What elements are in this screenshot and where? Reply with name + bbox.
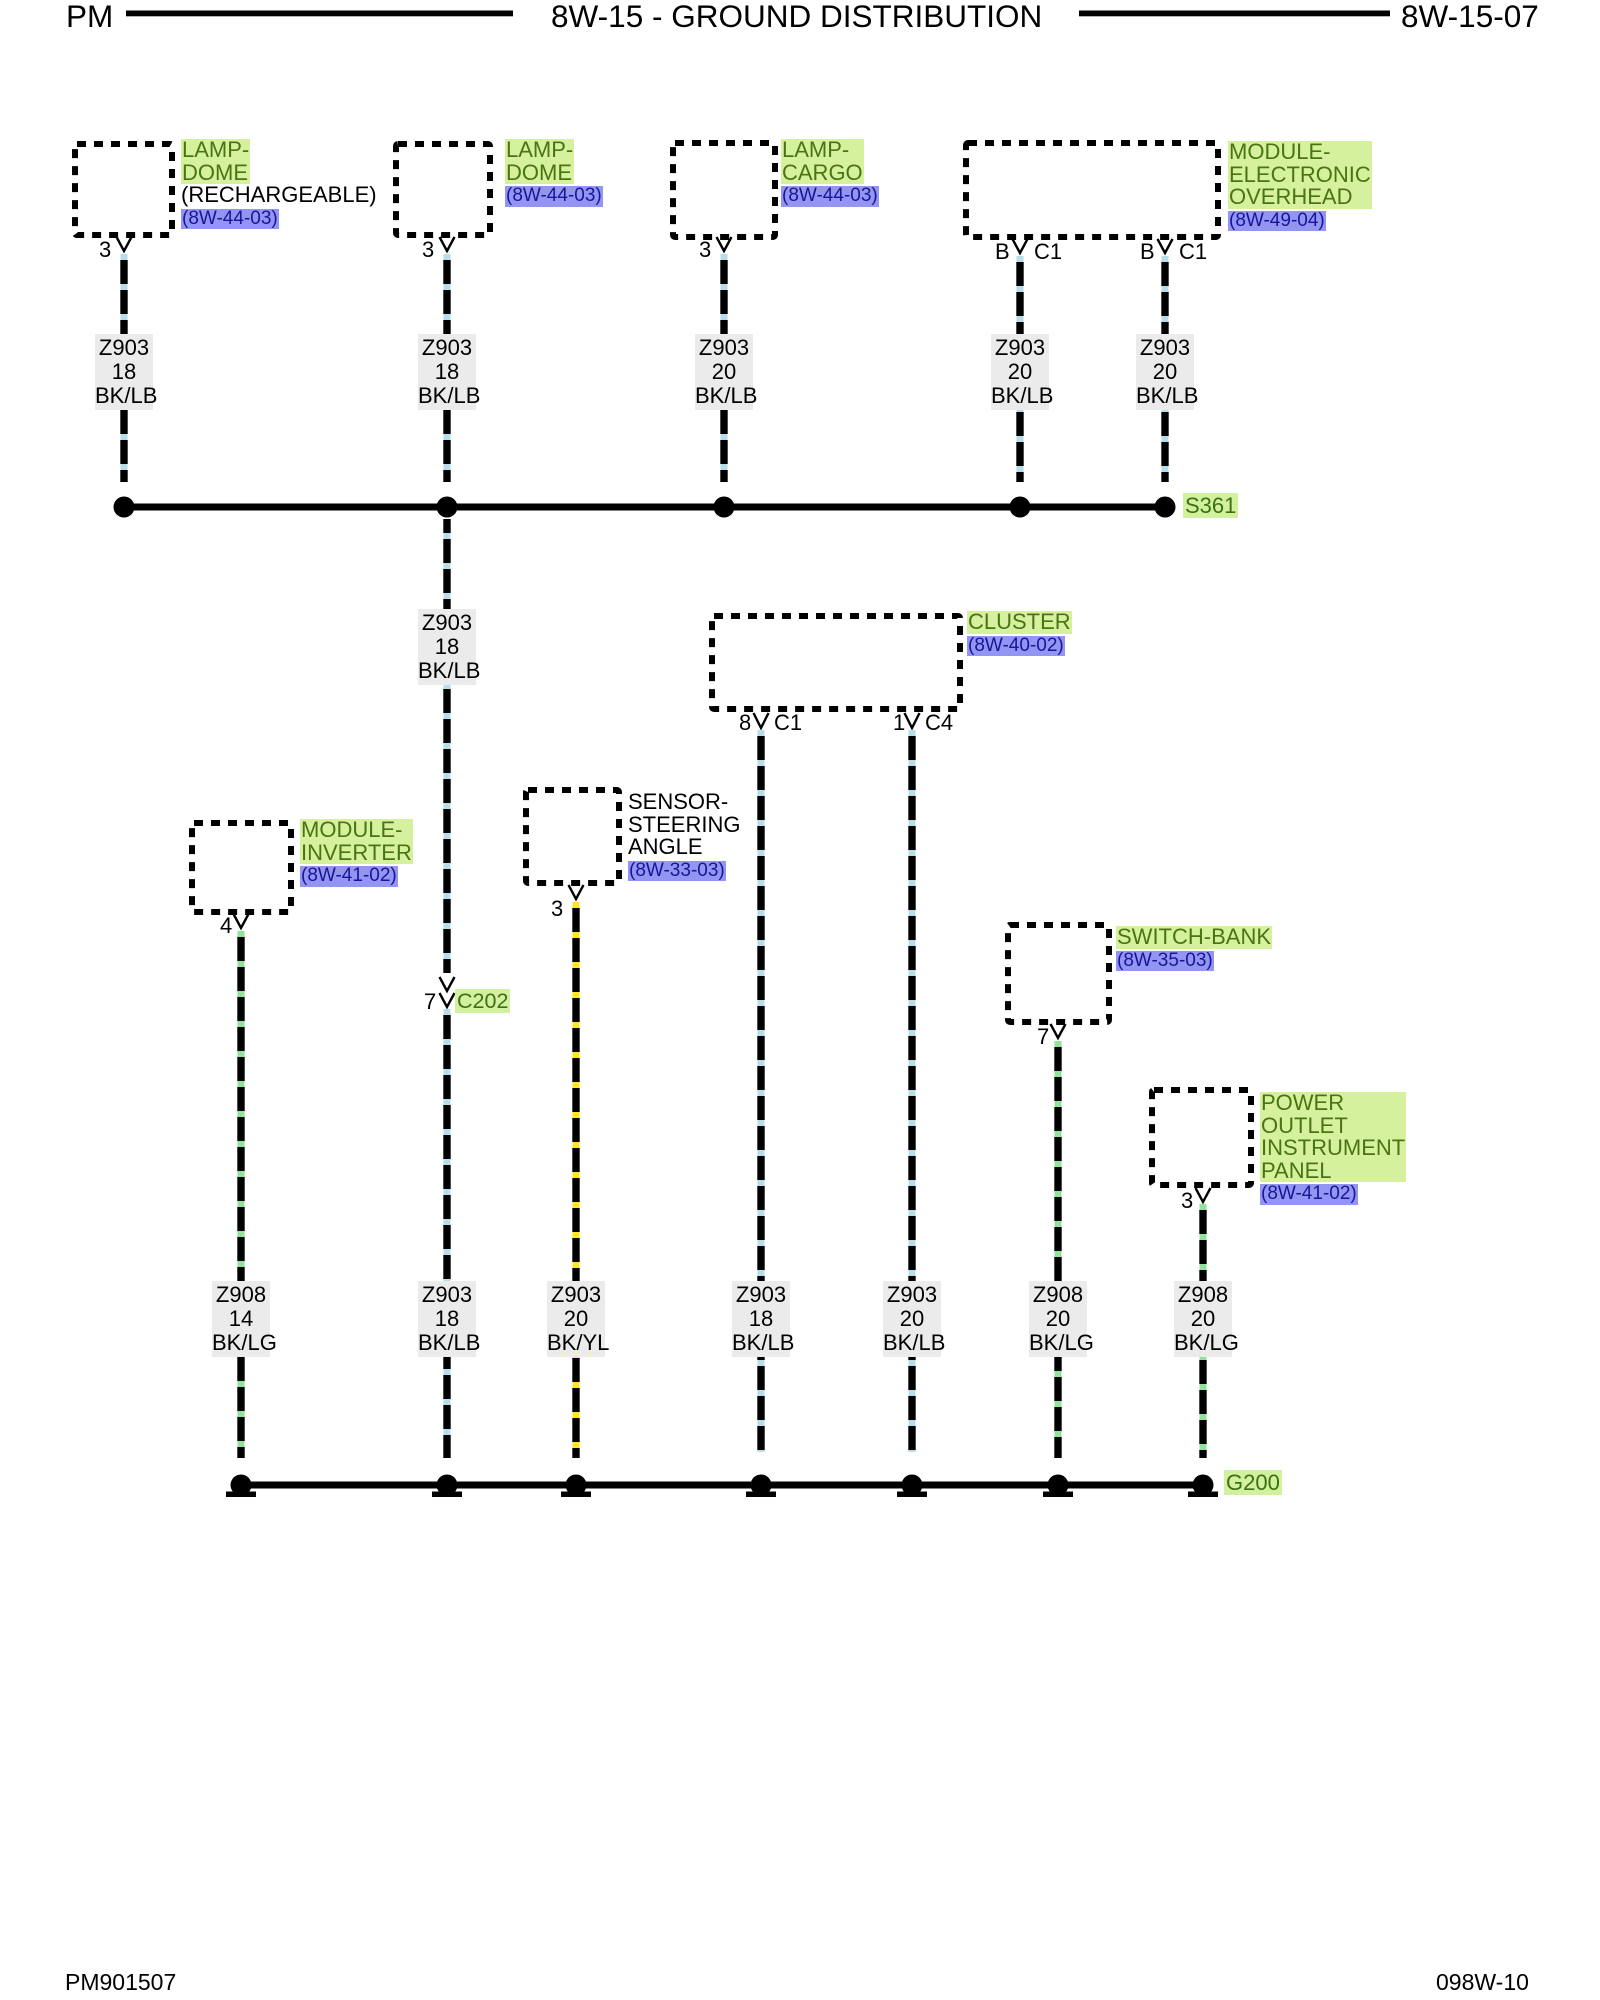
wire Z903 20 BK/LB from lamp-cargo — [721, 254, 728, 482]
wire Z903 18 BK/LB trunk below S361 — [444, 519, 451, 973]
ground junction G200 col6 — [1048, 1475, 1069, 1496]
junction at S361 col4 — [1010, 497, 1031, 518]
pin 7 at C202 — [424, 991, 436, 1013]
wire label Z908 14 BK/LG col1 — [212, 1281, 270, 1357]
connector name C1 left — [1034, 241, 1062, 263]
pin 1 of cluster — [893, 712, 905, 734]
wire label Z903 18 BK/LB col4 — [732, 1281, 790, 1357]
connector V pin 3 steering angle sensor — [569, 885, 584, 899]
header rule left — [126, 11, 513, 17]
component box sensor-steering angle — [526, 790, 619, 883]
ground junction G200 col1 — [231, 1475, 252, 1496]
pin 3 of lamp-cargo — [699, 239, 711, 261]
ground attachment bar — [226, 1492, 256, 1498]
component box cluster — [712, 616, 960, 709]
pin B of overhead module C1 left — [995, 241, 1010, 263]
connector V pin B C1 right — [1158, 239, 1173, 253]
header page number — [1401, 0, 1539, 32]
connector C202 lower half V — [440, 993, 455, 1007]
wire Z903 20 BK/LB from overhead module pin B right — [1162, 256, 1169, 482]
wire label Z903 20 BK/YL col3 — [547, 1281, 605, 1357]
wire Z903 18 BK/LB below C202 — [444, 1009, 451, 1458]
wire Z903 20 BK/YL from steering angle sensor — [573, 902, 580, 1458]
component box switch-bank — [1008, 925, 1109, 1022]
ground attachment bar — [561, 1492, 591, 1498]
connector V pin 3 lamp-cargo — [717, 237, 732, 251]
wire Z903 20 BK/LB from overhead module pin B left — [1017, 256, 1024, 482]
ground attachment bar — [897, 1492, 927, 1498]
connector V pin 4 module-inverter — [234, 914, 249, 928]
pin 3 of lamp-dome rechargeable — [99, 239, 111, 261]
pin 8 of cluster — [739, 712, 751, 734]
connector name C1 right — [1179, 241, 1207, 263]
pin 3 of lamp-dome — [422, 239, 434, 261]
connector V pin 7 switch-bank — [1051, 1024, 1066, 1038]
connector C202 upper half V — [440, 977, 455, 991]
ground attachment bar — [746, 1492, 776, 1498]
component box module-inverter — [192, 823, 291, 912]
connector V pin 1 cluster — [905, 713, 920, 728]
ground attachment bar — [1188, 1492, 1218, 1498]
wire label Z908 20 BK/LG col6 — [1029, 1281, 1087, 1357]
ground junction G200 col3 — [566, 1475, 587, 1496]
component box lamp-cargo — [673, 143, 775, 237]
component box power outlet instrument panel — [1152, 1090, 1251, 1185]
pin 3 of power outlet — [1181, 1190, 1193, 1212]
connector V pin 3 lamp-dome — [440, 237, 455, 251]
label MODULE-ELECTRONIC OVERHEAD — [1228, 141, 1372, 231]
wire label Z903 20 BK/LB col4 — [991, 334, 1049, 410]
component box lamp-dome rechargeable — [75, 144, 172, 235]
label SENSOR-STEERING ANGLE — [628, 791, 740, 881]
connector V pin 3 lamp-dome rechargeable — [117, 237, 132, 251]
wire label Z903 20 BK/LB col5 — [1136, 334, 1194, 410]
label LAMP-DOME — [505, 139, 603, 207]
wire label Z908 20 BK/LG col7 — [1174, 1281, 1232, 1357]
ground attachment bar — [432, 1492, 462, 1498]
label CLUSTER — [967, 611, 1072, 656]
wire Z903 18 BK/LB from lamp-dome rechargeable — [121, 254, 128, 482]
junction at S361 col1 — [114, 497, 135, 518]
connector V pin 3 power outlet — [1196, 1188, 1211, 1202]
label SWITCH-BANK — [1116, 926, 1272, 971]
pin 3 of steering angle sensor — [551, 898, 563, 920]
splice bus S361 — [118, 504, 1165, 511]
ground junction G200 col4 — [751, 1475, 772, 1496]
wire label Z903 18 BK/LB trunk — [418, 609, 476, 685]
connector name C1 cluster — [774, 712, 802, 734]
pin B of overhead module C1 right — [1140, 241, 1155, 263]
wire Z903 20 BK/LB from cluster pin 1 — [909, 730, 916, 1452]
ground junction G200 col7 — [1193, 1475, 1214, 1496]
wire Z903 18 BK/LB from lamp-dome — [444, 254, 451, 482]
header text PM — [66, 0, 113, 32]
wire Z908 14 BK/LG from module-inverter — [238, 931, 245, 1458]
pin 7 of switch-bank — [1037, 1026, 1049, 1048]
wire Z908 20 BK/LG from power outlet — [1200, 1204, 1207, 1458]
connector name C4 cluster — [925, 712, 953, 734]
connector V pin 8 cluster — [754, 713, 769, 728]
ground junction G200 col2 — [437, 1475, 458, 1496]
footer document number — [65, 1971, 176, 1994]
header title — [551, 0, 1042, 32]
wire label Z903 18 BK/LB col2 — [418, 1281, 476, 1357]
component box lamp-dome — [396, 144, 490, 235]
junction at S361 col3 — [714, 497, 735, 518]
header rule right — [1079, 11, 1390, 17]
junction at S361 col5 — [1155, 497, 1176, 518]
label LAMP-DOME (RECHARGEABLE) — [181, 139, 377, 229]
wire label Z903 20 BK/LB col3 — [695, 334, 753, 410]
splice label S361 — [1183, 494, 1238, 517]
wire label Z903 18 BK/LB col2 — [418, 334, 476, 410]
label POWER OUTLET INSTRUMENT PANEL — [1260, 1092, 1406, 1205]
footer page code — [1436, 1971, 1529, 1994]
label LAMP-CARGO — [781, 139, 879, 207]
ground junction G200 col5 — [902, 1475, 923, 1496]
connector label C202 — [455, 991, 510, 1012]
connector V pin B C1 left — [1013, 239, 1028, 253]
ground label G200 — [1224, 1471, 1282, 1494]
wire label Z903 20 BK/LB col5 — [883, 1281, 941, 1357]
component box module-electronic overhead — [966, 143, 1218, 237]
wire label Z903 18 BK/LB col1 — [95, 334, 153, 410]
junction at S361 col2 — [437, 497, 458, 518]
ground bus G200 — [238, 1482, 1205, 1489]
wire Z908 20 BK/LG from switch-bank — [1055, 1041, 1062, 1458]
ground attachment bar — [1043, 1492, 1073, 1498]
pin 4 of module-inverter — [220, 915, 232, 937]
wire Z903 18 BK/LB from cluster pin 8 — [758, 730, 765, 1452]
label MODULE-INVERTER — [300, 819, 413, 887]
